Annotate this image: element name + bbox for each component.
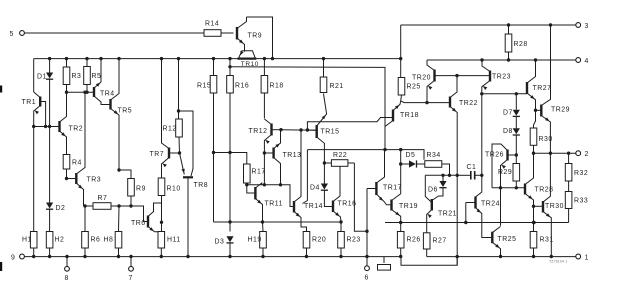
svg-text:TR13: TR13 — [283, 152, 302, 159]
scan mark left bottom — [0, 262, 2, 271]
svg-text:R29: R29 — [498, 169, 512, 176]
node TR9 collector on bus — [271, 57, 274, 60]
diode D2 — [49, 127, 51, 203]
svg-text:TR16: TR16 — [338, 201, 357, 208]
node R28 top — [507, 23, 510, 26]
wire mirror base line — [457, 75, 490, 77]
node TR11 emitter on bias — [261, 220, 264, 223]
svg-text:R15: R15 — [197, 83, 211, 90]
svg-text:8: 8 — [65, 275, 69, 282]
svg-text:H2: H2 — [55, 237, 65, 244]
wire feedback drop — [303, 150, 308, 204]
transistor TR22 — [449, 97, 451, 108]
resistor R31 — [530, 232, 537, 249]
node TR19 emitter — [399, 221, 402, 224]
svg-text:R27: R27 — [433, 238, 447, 245]
svg-text:2: 2 — [585, 151, 589, 158]
node R10/R11 junction — [160, 221, 163, 224]
resistor R33 — [568, 181, 570, 192]
transistor TR28 — [524, 184, 526, 195]
wire pin4 line — [427, 59, 576, 61]
resistor R32 — [568, 153, 570, 163]
svg-text:D1: D1 — [37, 74, 47, 81]
wire R7 to TR6 base — [111, 206, 148, 222]
node TR30 base — [532, 205, 535, 208]
svg-text:R6: R6 — [91, 237, 101, 244]
transistor TR6 — [147, 216, 149, 228]
svg-text:R16: R16 — [235, 83, 249, 90]
node comp R31 link — [532, 221, 535, 224]
node TR28 collector / R30 bottom — [532, 152, 535, 155]
svg-text:R32: R32 — [574, 170, 588, 177]
wire rail duck-under — [401, 257, 457, 266]
svg-text:R26: R26 — [407, 237, 421, 244]
svg-text:R23: R23 — [347, 237, 361, 244]
transistor TR18 — [392, 110, 394, 122]
svg-text:7: 7 — [129, 275, 133, 282]
resistor R10 — [161, 165, 163, 179]
terminal 8 — [66, 257, 68, 267]
terminal 1 — [576, 254, 581, 259]
node TR18 emitter join — [383, 148, 386, 151]
resistor R28 — [508, 25, 510, 34]
wire mirror line — [281, 129, 317, 132]
wire pin6 riser — [366, 231, 368, 256]
svg-text:H11: H11 — [167, 237, 181, 244]
transistor TR26 — [508, 154, 517, 156]
wire pin2 line — [534, 152, 576, 154]
node D5 feed — [399, 148, 402, 151]
node TR1 base junction — [44, 125, 47, 128]
transistor TR21 — [431, 199, 433, 211]
svg-text:D6: D6 — [428, 187, 438, 194]
svg-text:D4: D4 — [310, 185, 320, 192]
svg-text:TR15: TR15 — [321, 129, 340, 136]
svg-text:H19: H19 — [248, 237, 262, 244]
transistor TR27 — [526, 82, 528, 94]
transistor TR11 — [247, 185, 256, 193]
resistor R17 — [244, 164, 251, 183]
svg-text:R7: R7 — [98, 195, 108, 202]
resistor R8 — [118, 206, 121, 232]
node TR22 emitter rail — [456, 255, 459, 258]
svg-text:3: 3 — [585, 23, 589, 30]
transistor TR15 — [307, 129, 316, 131]
node D4 top — [323, 161, 326, 164]
wire R15-R16 link — [214, 153, 247, 165]
node TR12 emitter low — [263, 183, 266, 186]
node TR13 base — [263, 151, 266, 154]
terminal 3 — [576, 23, 581, 28]
resistor R21 — [322, 57, 325, 60]
svg-text:TR1: TR1 — [22, 99, 37, 106]
transistor TR1 — [39, 97, 41, 107]
wire TR28 base line — [492, 187, 525, 189]
svg-text:5: 5 — [10, 31, 14, 38]
svg-text:TR17: TR17 — [383, 185, 402, 192]
resistor R26 — [400, 223, 402, 232]
capacitor C1 — [457, 174, 470, 176]
wire TR27 base line — [482, 93, 527, 95]
svg-text:R18: R18 — [270, 83, 284, 90]
svg-text:9: 9 — [11, 255, 15, 262]
svg-text:H8: H8 — [104, 237, 114, 244]
terminal 6 — [366, 257, 368, 266]
node TR7 base / R12 — [178, 151, 181, 154]
svg-text:TR25: TR25 — [498, 236, 517, 243]
wire bias line — [214, 221, 342, 223]
diode D7 — [515, 94, 517, 110]
svg-text:R20: R20 — [312, 237, 326, 244]
node TR20 emitter — [425, 101, 428, 104]
wire TR20 emitter line — [401, 101, 450, 103]
resistor R15 — [212, 57, 215, 60]
svg-text:TR26: TR26 — [485, 152, 504, 159]
transistor TR12 — [270, 124, 272, 136]
node TR30 emitter rail — [550, 255, 553, 258]
node R15 mid junction — [212, 151, 215, 154]
resistor R4 — [63, 155, 70, 170]
transistor TR17 — [367, 188, 376, 190]
node D5 anode — [399, 162, 402, 165]
terminal 7 — [130, 257, 132, 267]
transistor TR9 — [236, 27, 238, 40]
resistor R2 — [46, 232, 53, 249]
resistor R20 — [303, 232, 310, 249]
node pin7 on rail — [129, 255, 132, 258]
node TR25 emitter rail — [499, 255, 502, 258]
svg-text:R22: R22 — [333, 152, 347, 159]
svg-text:R14: R14 — [205, 21, 219, 28]
node TR26 emitter cross — [499, 186, 502, 189]
svg-text:TR7: TR7 — [150, 151, 165, 158]
left supply line lower — [33, 111, 35, 232]
node C1 right — [480, 174, 483, 177]
svg-text:R34: R34 — [427, 152, 441, 159]
svg-text:TR5: TR5 — [118, 108, 133, 115]
diode D6 — [442, 175, 444, 181]
node pin6 junction — [365, 230, 368, 233]
svg-text:TR23: TR23 — [492, 74, 511, 81]
resistor R6 — [84, 206, 86, 232]
node link corner — [306, 128, 309, 131]
transistor TR2 — [58, 121, 60, 132]
wire comp node line — [425, 174, 457, 176]
resistor R18 — [263, 57, 266, 60]
svg-text:TR27: TR27 — [533, 85, 552, 92]
resistor R16 — [228, 57, 231, 60]
wire collector line — [247, 185, 294, 207]
svg-text:TR2: TR2 — [69, 126, 84, 133]
resistor R22 — [331, 160, 348, 167]
resistor R27 — [423, 233, 430, 249]
svg-text:4: 4 — [585, 58, 589, 65]
svg-text:TR20: TR20 — [412, 75, 431, 82]
node TR26 base — [515, 153, 518, 156]
node R29 bottom — [515, 186, 518, 189]
svg-text:D7: D7 — [503, 110, 513, 117]
svg-text:D3: D3 — [215, 239, 225, 246]
wire TR18 base line — [307, 118, 393, 131]
svg-text:TR12: TR12 — [249, 128, 268, 135]
terminal 5 — [20, 31, 25, 36]
diode D3 — [228, 220, 231, 223]
node D6 top — [441, 174, 444, 177]
transistor TR30 — [534, 205, 544, 207]
wire output rail — [427, 256, 576, 258]
svg-text:TR21: TR21 — [438, 211, 457, 218]
transistor TR16 — [332, 201, 334, 213]
diode D4 — [323, 163, 325, 184]
node D7 top — [515, 92, 518, 95]
resistor R9 — [119, 170, 131, 179]
bottom rail — [24, 256, 401, 258]
svg-text:TR9: TR9 — [248, 33, 263, 40]
svg-text:D8: D8 — [503, 128, 513, 135]
resistor R3 — [65, 57, 68, 60]
svg-text:R9: R9 — [136, 186, 146, 193]
transistor TR10 — [239, 51, 256, 58]
svg-text:TR30: TR30 — [545, 203, 564, 210]
transistor TR23 — [489, 71, 491, 82]
svg-text:D2: D2 — [56, 205, 66, 212]
wire 148 line — [307, 150, 424, 160]
transistor TR5 — [109, 99, 111, 110]
wire R22 to pin6 drop — [354, 163, 367, 231]
svg-text:TR22: TR22 — [459, 100, 478, 107]
wire inner bus — [230, 67, 385, 150]
node R23 top — [339, 220, 342, 223]
svg-text:TR24: TR24 — [481, 201, 500, 208]
svg-text:TR11: TR11 — [265, 201, 284, 208]
wire TR3 emitter to R7 — [84, 205, 94, 207]
node TR24 base — [464, 221, 467, 224]
wire right bus riser — [400, 25, 402, 59]
transistor TR29 — [536, 109, 542, 111]
svg-text:R10: R10 — [167, 186, 181, 193]
svg-text:R21: R21 — [330, 83, 344, 90]
transistor TR24 — [466, 202, 476, 204]
svg-text:6: 6 — [365, 275, 369, 282]
resistor R19 — [262, 222, 265, 232]
node C1 left — [456, 174, 459, 177]
node R34 corner — [448, 174, 451, 177]
svg-text:R30: R30 — [539, 136, 553, 143]
node TR29 base — [534, 109, 537, 112]
wire R14 to TR9 base — [221, 32, 234, 34]
wire comp line — [385, 222, 569, 224]
resistor R34 — [425, 161, 442, 168]
svg-text:R12: R12 — [163, 126, 177, 133]
svg-text:R3: R3 — [72, 73, 82, 80]
substrate tab — [383, 257, 385, 264]
svg-text:TR3: TR3 — [87, 177, 102, 184]
svg-text:TR14: TR14 — [304, 203, 323, 210]
svg-text:R33: R33 — [574, 198, 588, 205]
svg-text:TR19: TR19 — [399, 203, 418, 210]
terminal 2 — [576, 151, 581, 156]
node TR5 emitter / R9 branch — [117, 168, 120, 171]
wire TR2 base line — [34, 126, 60, 128]
transistor TR4 — [93, 87, 95, 97]
node R3/TR4 base junction — [65, 91, 68, 94]
transistor TR8 — [179, 111, 194, 176]
resistor R7 — [93, 203, 111, 210]
svg-text:TR8: TR8 — [194, 182, 209, 189]
resistor R29 — [513, 164, 520, 182]
svg-text:R17: R17 — [252, 169, 266, 176]
resistor R5 — [85, 57, 88, 60]
svg-text:C1: C1 — [467, 164, 477, 171]
resistor R30 — [534, 110, 536, 128]
resistor R23 — [340, 222, 342, 232]
node TR14 collector top — [299, 128, 302, 131]
resistor R25 — [399, 57, 402, 60]
node output node — [549, 152, 552, 155]
svg-text:D5: D5 — [406, 152, 416, 159]
wire TR21 base drop — [425, 175, 432, 202]
node mirror bases — [455, 74, 458, 77]
resistor R14 — [204, 30, 221, 37]
top bus rail — [34, 58, 401, 60]
svg-text:1: 1 — [585, 255, 589, 262]
node pin8 on rail — [65, 255, 68, 258]
resistor R11 — [158, 232, 165, 249]
svg-text:TR18: TR18 — [400, 112, 419, 119]
wire TR30 base drop — [533, 206, 535, 231]
terminal 4 — [576, 58, 581, 63]
diode D1 — [48, 57, 51, 60]
svg-text:H1: H1 — [22, 237, 32, 244]
node R31 top — [532, 221, 535, 224]
svg-text:R5: R5 — [92, 73, 102, 80]
diode D8 — [515, 116, 517, 128]
node TR13 collector low — [279, 183, 282, 186]
terminal 9 — [20, 254, 25, 259]
transistor TR7 — [168, 148, 170, 159]
svg-text:R25: R25 — [407, 84, 421, 91]
transistor TR3 — [67, 178, 77, 180]
transistor TR19 — [390, 200, 392, 211]
diode D5 — [401, 163, 409, 165]
node R16 bottom junction — [228, 151, 231, 154]
svg-text:R28: R28 — [514, 41, 528, 48]
svg-text:TR6: TR6 — [131, 220, 146, 227]
svg-text:TR4: TR4 — [100, 91, 115, 98]
scan mark left top — [0, 86, 2, 93]
wire pin3 line — [401, 24, 576, 26]
transistor TR25 — [491, 232, 493, 244]
left supply line — [33, 59, 35, 92]
svg-text:TZ76194.1: TZ76194.1 — [549, 260, 567, 264]
resistor R12 — [177, 57, 180, 60]
resistor R1 — [30, 232, 37, 249]
svg-text:TR29: TR29 — [551, 107, 570, 114]
node R12 top branch — [177, 109, 180, 112]
wire pin5 to R14 — [24, 32, 204, 34]
transistor TR20 — [433, 70, 435, 82]
svg-text:R4: R4 — [72, 160, 82, 167]
node R17 bottom — [245, 183, 248, 186]
node TR27 base line start — [480, 92, 483, 95]
svg-text:R31: R31 — [540, 237, 554, 244]
transistor TR14 — [293, 201, 295, 213]
wire TR4 base line — [67, 91, 95, 93]
transistor TR13 — [264, 152, 273, 154]
node TR12 base — [279, 128, 282, 131]
node R32 top — [567, 152, 570, 155]
